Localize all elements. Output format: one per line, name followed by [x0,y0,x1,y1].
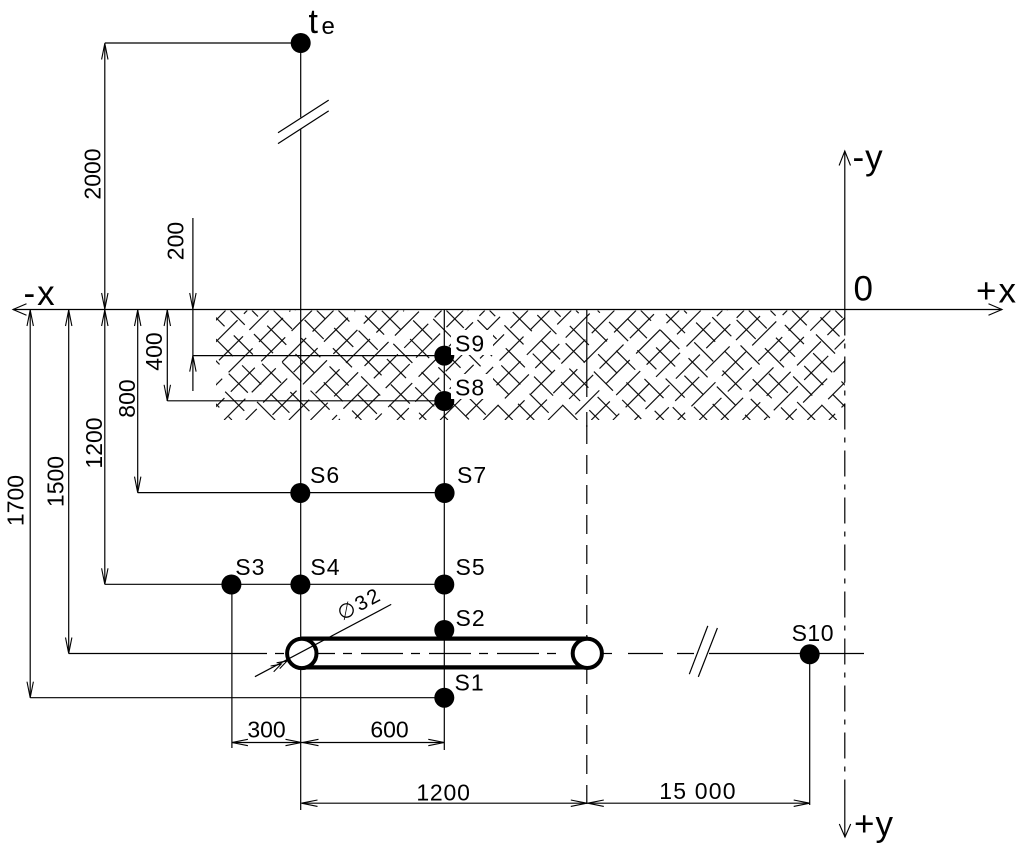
svg-text:S2: S2 [456,605,486,631]
svg-text:e: e [322,13,335,40]
svg-text:+y: +y [854,805,894,844]
svg-text:t: t [309,3,319,41]
svg-text:S10: S10 [792,620,834,646]
svg-text:300: 300 [247,717,285,743]
svg-text:200: 200 [163,222,189,260]
svg-text:S4: S4 [310,554,340,580]
svg-text:S8: S8 [455,375,485,401]
svg-text:S7: S7 [457,462,487,488]
svg-text:1700: 1700 [3,475,29,526]
svg-text:1200: 1200 [81,417,107,468]
svg-text:S6: S6 [310,462,340,488]
svg-text:-x: -x [24,274,57,313]
svg-text:S5: S5 [456,554,486,580]
svg-text:S3: S3 [235,554,265,580]
svg-text:600: 600 [370,717,408,743]
svg-text:-y: -y [853,138,884,177]
svg-text:15 000: 15 000 [659,778,737,804]
svg-text:1500: 1500 [42,456,68,507]
svg-text:+x: +x [976,272,1018,311]
svg-text:S9: S9 [455,331,485,357]
svg-text:1200: 1200 [416,780,470,806]
svg-text:2000: 2000 [80,148,106,199]
svg-text:∅32: ∅32 [334,583,386,625]
svg-text:0: 0 [854,270,873,309]
svg-text:S1: S1 [455,670,485,696]
svg-text:800: 800 [114,379,140,417]
svg-text:400: 400 [141,332,167,370]
